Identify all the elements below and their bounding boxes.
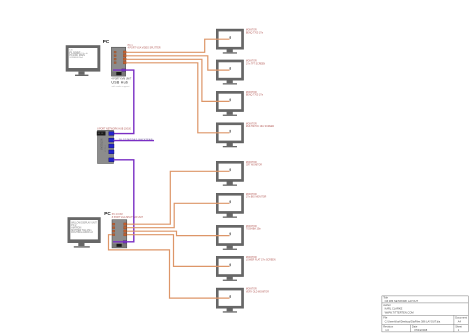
- U2 port 3: [109, 144, 114, 148]
- svg-text:OZ 386 NETWORK LAYOUT: OZ 386 NETWORK LAYOUT: [385, 299, 419, 303]
- svg-text:Date: Date: [412, 324, 418, 328]
- svg-text:17in BIG MONITOR: 17in BIG MONITOR: [246, 197, 267, 199]
- wire P2 (hub port2 stub, to internet): [114, 140, 154, 142]
- U2 port 1: [109, 132, 114, 136]
- title block text: [383, 296, 467, 333]
- svg-text:with audio support: with audio support: [112, 85, 130, 88]
- svg-text:Sheet: Sheet: [455, 324, 462, 328]
- label U1 caption: [111, 78, 131, 88]
- wire W2 (U1 port2 to monitor T2): [126, 56, 229, 70]
- wire W6 (U3 port2 to monitor B2): [127, 203, 230, 227]
- label B5 (red): [246, 289, 269, 294]
- label T2 (red): [246, 61, 266, 66]
- label hub U2 (red): [97, 129, 131, 131]
- svg-text:USB Hub: USB Hub: [111, 81, 128, 85]
- U3 power connector: [117, 244, 122, 247]
- svg-text:KARL CLARKE: KARL CLARKE: [385, 307, 403, 311]
- svg-text:Author: Author: [383, 303, 391, 307]
- svg-text:PC: PC: [104, 211, 111, 216]
- label net (to internet services): [119, 137, 153, 141]
- svg-text:Title: Title: [383, 296, 388, 300]
- U2 port 4: [109, 150, 114, 154]
- svg-text:MONITOR: MONITOR: [246, 257, 257, 259]
- svg-text:4 PORT VGA VIDEO SPLITTER: 4 PORT VGA VIDEO SPLITTER: [128, 47, 161, 50]
- hub U2: [97, 130, 114, 163]
- monitor B1: [216, 161, 243, 186]
- U1 USB connector (purple): [122, 69, 126, 72]
- label PC (PC2): [104, 211, 111, 216]
- svg-text:Document: Document: [455, 316, 467, 320]
- label T4 (red): [246, 123, 275, 128]
- wire P3 (hub port5 to splitter U3, purple): [113, 160, 134, 242]
- svg-text:MONITOR: MONITOR: [246, 61, 257, 63]
- svg-text:MONITOR: MONITOR: [246, 162, 257, 164]
- monitor T4: [216, 123, 243, 148]
- svg-text:PC 1: PC 1: [128, 45, 134, 47]
- monitor B5: [216, 288, 243, 313]
- label B3 (red): [246, 226, 262, 231]
- svg-text:FS108: FS108: [104, 146, 106, 153]
- input connector mark: [230, 36, 231, 39]
- input connector mark: [230, 264, 231, 267]
- label B1 (red): [246, 162, 262, 167]
- U3 USB connector (purple): [123, 241, 127, 244]
- label B2 (red): [246, 194, 267, 199]
- svg-text:TOSHIBA 15in: TOSHIBA 15in: [246, 228, 262, 231]
- svg-text:17in TFT SCREEN: 17in TFT SCREEN: [246, 63, 266, 65]
- wire W8 (U3 port4 to monitor B4): [127, 235, 230, 267]
- svg-text:PC: PC: [103, 39, 110, 44]
- input connector mark: [230, 200, 231, 203]
- svg-text:SCREEN No1: SCREEN No1: [69, 57, 84, 59]
- svg-text:MONITOR: MONITOR: [246, 289, 257, 291]
- monitor PC1 display: [66, 45, 101, 76]
- svg-text:MONITOR: MONITOR: [246, 123, 257, 125]
- label splitter U3 (red): [112, 214, 144, 219]
- U1 power connector: [116, 72, 121, 75]
- svg-text:8 PORT VGA SPLITTER UNIT: 8 PORT VGA SPLITTER UNIT: [112, 216, 144, 219]
- label B4 (red): [246, 257, 276, 262]
- svg-text:MONITOR: MONITOR: [246, 92, 257, 94]
- svg-text:VERY OLD MONITOR: VERY OLD MONITOR: [246, 291, 269, 293]
- input connector mark: [230, 67, 231, 70]
- title block: [382, 296, 468, 332]
- U2 port 2: [109, 138, 114, 142]
- wire W5 (U3 port1 to monitor B1): [127, 171, 230, 224]
- label T1 (red): [246, 30, 264, 35]
- monitor T2: [216, 60, 243, 85]
- wire W1 (U1 port1 to monitor T1): [126, 39, 229, 52]
- U1 input ports (left column): [114, 51, 116, 53]
- svg-text:07/04/2008: 07/04/2008: [414, 328, 428, 332]
- U1 output ports 1-4 (right edge): [123, 51, 126, 54]
- wire W7 (U3 port3 to monitor B3): [127, 231, 230, 235]
- wire W9 (U3 left port to monitor B5): [109, 235, 230, 298]
- svg-text:Revision: Revision: [383, 324, 394, 328]
- svg-text:CRT MONITOR: CRT MONITOR: [246, 165, 262, 167]
- input connector mark: [230, 99, 231, 102]
- svg-text:MULTISYNC 19in SCREEN: MULTISYNC 19in SCREEN: [246, 126, 275, 128]
- svg-text:NETGEAR: NETGEAR: [99, 139, 102, 151]
- U2 port 5: [109, 158, 114, 162]
- monitor T3: [216, 91, 243, 116]
- svg-text:WWW.TITTERTEN.COM: WWW.TITTERTEN.COM: [385, 310, 414, 314]
- label PC (PC1): [103, 39, 110, 44]
- svg-text:A4: A4: [458, 320, 462, 324]
- input connector mark: [230, 130, 231, 133]
- svg-text:ROUTING AUDIO x2: ROUTING AUDIO x2: [71, 231, 93, 234]
- svg-text:MONITOR: MONITOR: [246, 30, 257, 32]
- U3 input ports (left column): [112, 223, 115, 225]
- splitter U1: [111, 47, 126, 76]
- monitor B2: [216, 193, 243, 218]
- input connector mark: [230, 168, 231, 171]
- svg-text:BENQ T705 17in: BENQ T705 17in: [246, 95, 264, 97]
- wire P1 (U1 to hub port1, purple): [113, 70, 134, 134]
- wire W4 (U1 port4 to monitor T4): [126, 63, 229, 133]
- monitor B4: [216, 256, 243, 281]
- monitor PC2 display: [68, 217, 101, 247]
- label splitter U1 (red): [128, 45, 161, 50]
- monitor B3: [216, 225, 243, 250]
- svg-text:LOWER FLAT 17in SCREEN: LOWER FLAT 17in SCREEN: [246, 259, 276, 262]
- input connector mark: [230, 233, 231, 236]
- wire W3 (U1 port3 to monitor T3): [126, 59, 229, 101]
- svg-text:MONITOR: MONITOR: [246, 226, 257, 228]
- svg-text:File: File: [383, 316, 388, 320]
- svg-text:BENQ T705 17in: BENQ T705 17in: [246, 32, 264, 34]
- svg-text:PC 2 KVM: PC 2 KVM: [112, 214, 123, 216]
- svg-text:MONITOR: MONITOR: [246, 194, 257, 196]
- svg-text:1.0: 1.0: [385, 328, 389, 332]
- splitter U3: [112, 220, 127, 248]
- svg-text:to internet services: to internet services: [119, 137, 153, 141]
- U3 output ports 1-4 (right edge): [124, 223, 127, 226]
- monitor T1: [216, 29, 243, 54]
- label T3 (red): [246, 92, 264, 97]
- input connector mark: [230, 295, 231, 298]
- svg-text:C:\Users\Karl\Desktop\DiaFiles: C:\Users\Karl\Desktop\DiaFiles 386 LAYOU…: [385, 320, 441, 324]
- U2 uplink connector (black): [97, 131, 106, 135]
